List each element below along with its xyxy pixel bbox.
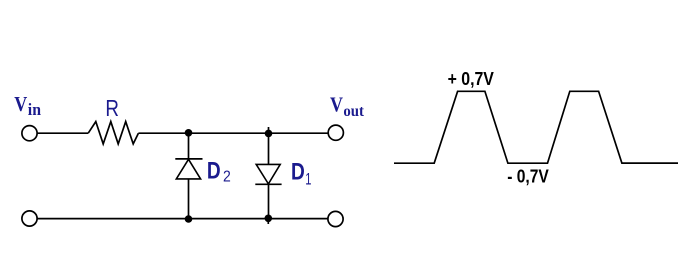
svg-text:- 0,7V: - 0,7V [507, 166, 549, 186]
wire top of D1 [268, 133, 270, 164]
svg-text:V: V [14, 92, 27, 116]
diode D1 cathode bar [255, 183, 281, 185]
wire bottom of D2 [188, 179, 190, 219]
svg-text:1: 1 [305, 170, 311, 188]
node junction dot top of D1 (with stub above) [268, 127, 270, 133]
terminal bottom-right open circle [328, 211, 343, 226]
wire resistor to Vout terminal [138, 132, 328, 134]
node junction dot top of D2 [185, 129, 193, 137]
svg-text:D: D [291, 158, 305, 185]
wire bottom of D1 [268, 184, 270, 218]
wire top of D2 [188, 133, 190, 159]
node junction dot bottom of D2 [185, 215, 193, 223]
svg-text:R: R [105, 95, 119, 121]
diode D2 triangle [176, 159, 200, 179]
svg-text:D: D [207, 158, 221, 185]
terminal Vout (top-right open circle) [328, 125, 343, 140]
node junction dot bottom of D1 (with stub below) [267, 218, 269, 224]
svg-text:2: 2 [223, 168, 231, 185]
terminal bottom-left open circle [22, 211, 37, 226]
svg-text:V: V [330, 92, 343, 116]
svg-text:in: in [28, 100, 41, 119]
resistor R [88, 122, 138, 144]
svg-text:out: out [343, 103, 364, 120]
diode D2 (pointing up) cathode bar [175, 158, 202, 160]
waveform clipped output trace [394, 91, 678, 163]
svg-text:+ 0,7V: + 0,7V [448, 69, 494, 89]
wire Vin to resistor [37, 132, 88, 134]
wire bottom rail [37, 218, 328, 220]
terminal Vin (top-left open circle) [22, 126, 37, 141]
diode D1 triangle (pointing down) [256, 164, 280, 184]
